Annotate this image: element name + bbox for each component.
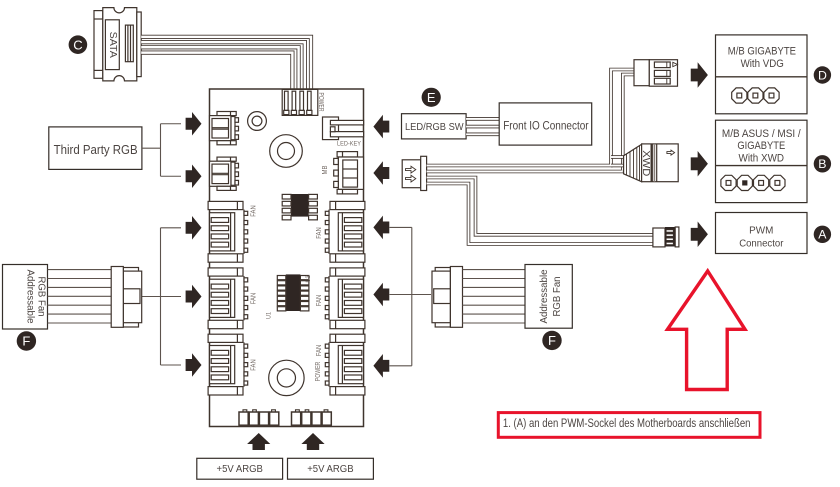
arrow into LED-KEY: [373, 115, 389, 139]
svg-text:M/B ASUS / MSI /: M/B ASUS / MSI /: [722, 128, 802, 140]
svg-text:LED/RGB SW: LED/RGB SW: [405, 122, 464, 133]
FAN connector L1: [208, 201, 248, 262]
svg-text:A: A: [818, 228, 827, 242]
wire from right fan plug: [390, 294, 432, 296]
mounting hole ring bottom: [269, 360, 304, 395]
ribbon wire left 1: [48, 269, 112, 271]
VDG connector: [634, 60, 678, 86]
arrow into FAN R2: [373, 283, 389, 307]
M/B GIGABYTE With VDG box: [716, 35, 808, 114]
svg-text:+5V ARGB: +5V ARGB: [307, 464, 353, 475]
ribbon wire right 5: [463, 304, 526, 306]
M/B ASUS MSI GIGABYTE With XWD box: [716, 120, 808, 202]
label F circle right: [542, 331, 561, 350]
IC U1: [277, 274, 309, 311]
label F circle left: [17, 331, 36, 350]
ribbon wire right 6: [463, 313, 526, 315]
arrow into FAN R3: [373, 354, 389, 378]
svg-text:D: D: [818, 68, 827, 82]
arrow into FAN L2: [186, 285, 202, 309]
mounting hole ring top: [248, 112, 267, 131]
wire sata 3: [141, 47, 298, 89]
wire stub to FAN R3: [390, 365, 412, 367]
svg-text:SATA: SATA: [107, 32, 118, 58]
IC U2 (top): [282, 194, 317, 220]
wire stub to RGB input 2: [161, 175, 182, 177]
wire stub to RGB input 1: [161, 123, 182, 125]
POWER header: [282, 89, 318, 115]
svg-text:Front IO Connector: Front IO Connector: [503, 119, 588, 133]
ribbon wire left 7: [48, 322, 112, 324]
wire bracket vertical right fans: [411, 227, 413, 365]
arrow into RGB input 2: [186, 164, 202, 188]
arrow into RGB input 1: [186, 112, 202, 136]
label C circle: [69, 35, 88, 54]
red arrow: [668, 271, 746, 390]
svg-text:POWER: POWER: [317, 93, 326, 112]
ribbon wire left 6: [48, 313, 112, 315]
label B circle: [814, 155, 831, 172]
arrow into MB: [373, 161, 389, 185]
wire to VDG 1: [427, 70, 634, 166]
PCB hub board: [210, 89, 364, 427]
svg-text:E: E: [427, 90, 436, 105]
svg-text:Connector: Connector: [739, 239, 784, 250]
ribbon wire left 2: [48, 278, 112, 280]
wire sata 4: [141, 53, 292, 90]
wire sata 1: [141, 37, 311, 90]
PWM plug: [653, 227, 679, 247]
svg-text:FAN: FAN: [248, 359, 257, 371]
wire to Front IO 2: [466, 125, 499, 129]
up arrow 1: [247, 433, 270, 450]
SATA power connector: [94, 8, 141, 81]
wire from left fan plug: [142, 296, 181, 298]
ribbon wire left 3: [48, 286, 112, 288]
svg-text:F: F: [22, 334, 30, 349]
svg-text:M/B GIGABYTE: M/B GIGABYTE: [728, 46, 797, 58]
PWM Connector box: [716, 213, 808, 254]
4-pin cable plug: [402, 156, 426, 190]
ribbon wire right 4: [463, 295, 526, 297]
svg-text:MB: MB: [322, 165, 329, 174]
svg-text:FAN: FAN: [314, 295, 323, 307]
svg-text:U3: U3: [306, 275, 312, 283]
RGB input connector 2: [210, 157, 239, 190]
ribbon wire right 2: [463, 278, 526, 280]
arrow to D box: [691, 62, 708, 87]
ARGB header bottom 2: [292, 410, 332, 425]
FAN connector R1: [325, 201, 365, 262]
svg-text:Addressable: Addressable: [539, 270, 550, 324]
svg-text:GIGABYTE: GIGABYTE: [737, 140, 785, 152]
wire bracket vertical top-left: [160, 124, 162, 177]
+5V ARGB box 1: [197, 458, 283, 479]
arrow into FAN L1: [186, 216, 202, 240]
Addressable RGB Fan box right: [525, 265, 572, 329]
ribbon wire right 7: [463, 322, 526, 324]
svg-text:With VDG: With VDG: [741, 58, 784, 70]
4-pin fan plug left: [111, 267, 142, 328]
wire from Third Party RGB box: [142, 147, 161, 149]
FAN connector R2: [325, 268, 365, 329]
svg-text:Addressable: Addressable: [25, 270, 36, 324]
svg-text:FAN: FAN: [314, 345, 323, 357]
wire to Front IO 1: [466, 117, 499, 121]
RGB input connector 1: [210, 112, 239, 145]
svg-text:PWM: PWM: [749, 225, 773, 236]
svg-text:FAN: FAN: [314, 227, 323, 239]
LED-KEY connector: [323, 117, 339, 140]
ARGB header bottom 1: [239, 410, 279, 425]
MB connector: [334, 152, 364, 194]
wire to VDG 2: [427, 75, 634, 172]
svg-text:FAN: FAN: [248, 205, 257, 217]
4-pin fan plug right: [432, 267, 463, 328]
FAN connector R3: [325, 334, 365, 395]
svg-text:RGB Fan: RGB Fan: [552, 277, 563, 317]
+5V ARGB box 2: [288, 458, 374, 479]
svg-text:LED-KEY: LED-KEY: [337, 140, 362, 147]
wire stub to FAN R1: [390, 226, 412, 228]
svg-text:With XWD: With XWD: [739, 152, 785, 164]
svg-text:+5V ARGB: +5V ARGB: [217, 464, 263, 475]
arrow to A box: [691, 222, 708, 247]
Front IO Connector box: [499, 103, 592, 145]
ribbon wire left 4: [48, 295, 112, 297]
svg-text:XWD: XWD: [640, 150, 651, 176]
wire to XWD b: [623, 159, 625, 163]
svg-text:FAN: FAN: [248, 293, 257, 305]
ribbon wire right 3: [463, 286, 526, 288]
FAN connector L2: [208, 268, 248, 329]
LED/RGB SW box: [402, 114, 467, 139]
red note box: [498, 413, 760, 438]
svg-text:RGB Fan: RGB Fan: [35, 277, 46, 317]
wire to Front IO 3: [466, 133, 499, 137]
Third Party RGB box: [49, 127, 142, 169]
ribbon wire right 1: [463, 269, 526, 271]
XWD connector: [624, 144, 679, 182]
svg-text:1. (A) an den PWM-Sockel des M: 1. (A) an den PWM-Sockel des Motherboard…: [503, 416, 751, 430]
arrow to B box: [691, 151, 708, 176]
wire to PWM 2: [427, 184, 653, 245]
wire sata 2: [141, 42, 305, 89]
label A circle: [814, 226, 831, 243]
wire to XWD c: [611, 164, 625, 168]
up arrow 2: [301, 433, 324, 450]
arrow into FAN R1: [373, 216, 389, 240]
label D circle: [814, 66, 831, 83]
svg-text:F: F: [548, 333, 556, 348]
ribbon wire left 5: [48, 304, 112, 306]
wire to XWD d: [623, 170, 625, 174]
wire stub to FAN L1: [161, 227, 182, 229]
svg-text:B: B: [818, 157, 826, 171]
FAN connector L3: [208, 334, 248, 395]
mounting hole ring mid: [270, 135, 303, 168]
svg-text:Third Party RGB: Third Party RGB: [54, 143, 138, 157]
svg-text:U1: U1: [266, 311, 272, 319]
arrow into FAN L3: [186, 353, 202, 377]
svg-text:C: C: [73, 37, 82, 52]
wire to XWD a: [611, 155, 625, 159]
Addressable RGB Fan box left: [3, 265, 48, 330]
wire bracket vertical left fans: [160, 228, 162, 365]
wire to PWM 1: [427, 178, 653, 235]
wire stub to FAN L3: [161, 364, 182, 366]
label E circle: [422, 88, 441, 107]
svg-text:POWER: POWER: [313, 362, 322, 382]
